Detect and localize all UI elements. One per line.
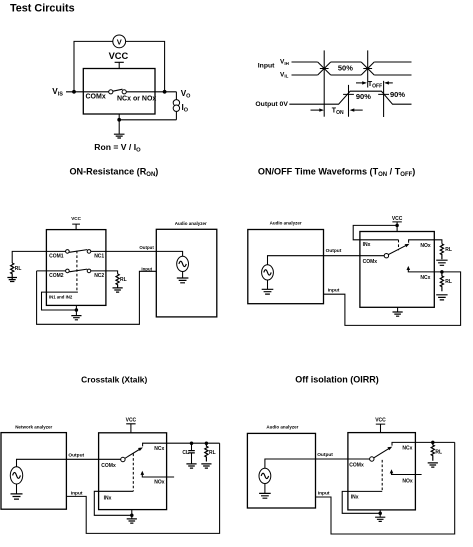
power VCC symbol xyxy=(126,424,135,433)
svg-text:VCC: VCC xyxy=(109,51,129,61)
wire box to ground xyxy=(379,510,381,517)
node ground junction xyxy=(130,514,134,518)
resistor RL right xyxy=(116,274,119,288)
svg-text:RL: RL xyxy=(445,247,452,253)
ground xyxy=(114,134,125,138)
ground source xyxy=(177,278,189,283)
svg-text:Test Circuits: Test Circuits xyxy=(10,2,75,14)
switch COMx-NCx xyxy=(109,90,113,94)
node NCx junction xyxy=(440,270,444,274)
svg-text:VCC: VCC xyxy=(71,216,81,221)
svg-text:Input: Input xyxy=(141,266,152,271)
svg-text:RL: RL xyxy=(15,266,22,272)
wire COM2 xyxy=(37,270,66,272)
wire NOx stub with arrow xyxy=(142,472,174,477)
svg-text:INx: INx xyxy=(351,495,359,501)
TOFF arrows xyxy=(356,82,364,84)
wire VCC to INx xyxy=(353,225,398,239)
svg-text:NCx: NCx xyxy=(154,446,164,452)
tick vertical line 1 xyxy=(323,50,325,116)
node bottom junction xyxy=(117,118,121,122)
svg-text:VIS: VIS xyxy=(52,87,63,98)
switch COMx xyxy=(121,457,125,461)
power VCC symbol xyxy=(72,224,80,230)
svg-text:Output 0V: Output 0V xyxy=(255,101,288,108)
wire top loop to voltmeter xyxy=(74,41,165,91)
ground RL NCx xyxy=(436,295,447,300)
ground IC box xyxy=(375,517,385,521)
resistor RL left xyxy=(11,263,14,279)
capacitor CL xyxy=(191,443,193,463)
wire source to ground xyxy=(16,484,18,494)
resistor RL NOx xyxy=(440,244,443,259)
svg-text:NOx: NOx xyxy=(420,243,431,249)
wire Input loop xyxy=(66,443,219,533)
svg-text:Output: Output xyxy=(139,245,154,250)
wire box to ground xyxy=(131,510,133,519)
ground NC2 RL xyxy=(113,288,123,292)
wire INx xyxy=(94,491,133,515)
svg-text:IN1 and IN2: IN1 and IN2 xyxy=(49,294,73,299)
switch COM1-NC1 xyxy=(66,250,70,254)
ground source xyxy=(259,493,271,498)
svg-text:COMx: COMx xyxy=(349,462,364,468)
node RL junction xyxy=(205,441,209,445)
node CL junction xyxy=(190,441,194,445)
input waveform VIH line xyxy=(292,61,412,63)
output waveform xyxy=(289,91,411,104)
svg-text:90%: 90% xyxy=(390,90,405,99)
svg-text:90%: 90% xyxy=(356,92,371,101)
ground CL xyxy=(186,464,196,468)
wire Output to COMx xyxy=(17,459,121,467)
switch COM2-NC2 xyxy=(66,269,70,273)
svg-text:NC1: NC1 xyxy=(94,253,104,259)
svg-text:V: V xyxy=(117,37,122,46)
dashed control link xyxy=(398,240,400,251)
svg-text:Input: Input xyxy=(258,63,275,70)
wire INx xyxy=(342,491,382,513)
node VIS junction xyxy=(72,90,76,94)
analyzer box xyxy=(1,433,66,510)
node RL junction xyxy=(431,441,435,445)
analyzer box xyxy=(156,229,217,317)
svg-text:Output: Output xyxy=(317,452,333,458)
svg-text:ON/OFF Time Waveforms (TON / T: ON/OFF Time Waveforms (TON / TOFF) xyxy=(258,167,415,179)
wire bottom return xyxy=(119,114,176,134)
voltmeter U1 xyxy=(113,35,126,48)
IC box U6 xyxy=(348,433,416,510)
wire source to ground xyxy=(267,280,269,289)
svg-text:NOx: NOx xyxy=(402,478,413,484)
wire Output to COMx xyxy=(268,256,385,265)
source V4 sine xyxy=(259,468,271,483)
svg-text:RL: RL xyxy=(445,279,452,285)
wire box to ground xyxy=(75,305,77,315)
svg-text:ON-Resistance (RON): ON-Resistance (RON) xyxy=(69,167,158,179)
svg-text:Input: Input xyxy=(318,491,330,497)
svg-text:COM2: COM2 xyxy=(49,273,64,279)
ground IC box xyxy=(71,316,81,320)
svg-text:RL: RL xyxy=(435,449,442,455)
source V2 sine xyxy=(262,265,274,280)
svg-text:NC2: NC2 xyxy=(94,273,104,279)
wire NCx xyxy=(143,443,220,446)
svg-text:Audio analyzer: Audio analyzer xyxy=(175,221,207,226)
resistor RL xyxy=(431,442,434,460)
svg-text:VCC: VCC xyxy=(375,418,386,424)
current source IO xyxy=(173,100,179,106)
source V3 sine xyxy=(10,467,22,484)
power VCC symbol xyxy=(392,222,401,232)
svg-text:COMx: COMx xyxy=(101,463,116,469)
svg-text:VIH: VIH xyxy=(280,59,289,66)
ground source xyxy=(11,494,23,499)
ground IC box xyxy=(393,312,403,316)
wire source to ground xyxy=(182,272,184,278)
wire NCx xyxy=(392,442,455,445)
svg-text:NOx: NOx xyxy=(154,480,165,486)
svg-text:Off isolation (OIRR): Off isolation (OIRR) xyxy=(295,375,379,385)
source V1 sine xyxy=(177,256,189,271)
svg-text:NCx or NOx: NCx or NOx xyxy=(117,95,156,102)
ground IC box xyxy=(127,519,137,523)
analyzer box xyxy=(247,433,315,508)
svg-text:50%: 50% xyxy=(338,64,353,73)
svg-text:TON: TON xyxy=(332,108,344,116)
IC box U2 xyxy=(83,69,155,115)
svg-text:Audio analyzer: Audio analyzer xyxy=(266,424,298,429)
node ground junction xyxy=(75,308,79,312)
svg-text:COM1: COM1 xyxy=(49,253,64,259)
svg-text:Input: Input xyxy=(328,288,340,294)
analyzer box xyxy=(248,230,324,304)
svg-text:VIL: VIL xyxy=(280,71,289,78)
ground RL NOx xyxy=(436,260,447,265)
svg-text:TOFF: TOFF xyxy=(368,81,382,89)
svg-text:Input: Input xyxy=(71,491,83,497)
svg-text:CL: CL xyxy=(182,450,189,456)
svg-text:Output: Output xyxy=(68,452,84,458)
dashed control link xyxy=(381,460,383,492)
wire NCx to Input loop xyxy=(324,272,461,326)
wire IN1/IN2 xyxy=(42,292,78,310)
dashed link switches xyxy=(76,251,78,292)
ground source xyxy=(262,289,274,294)
svg-text:COMx: COMx xyxy=(363,259,378,265)
svg-text:Crosstalk (Xtalk): Crosstalk (Xtalk) xyxy=(81,375,147,385)
IC box U4 xyxy=(360,232,434,308)
TON arrows xyxy=(311,109,321,111)
crossover X2 xyxy=(361,62,374,75)
svg-text:Ron = V / IO: Ron = V / IO xyxy=(94,142,141,154)
tick vertical line 3 xyxy=(343,85,354,117)
svg-text:INx: INx xyxy=(104,495,112,501)
power VCC symbol xyxy=(115,62,124,68)
svg-text:NCx: NCx xyxy=(402,446,412,452)
svg-text:Output: Output xyxy=(326,248,342,254)
svg-text:NCx: NCx xyxy=(420,275,430,281)
svg-text:RL: RL xyxy=(209,450,216,456)
node VCC junction xyxy=(395,224,399,228)
wire right branch xyxy=(175,92,177,120)
wire Output to COMx xyxy=(265,459,370,468)
resistor RL xyxy=(205,443,208,461)
wire VO output xyxy=(126,91,176,93)
resistor RL NCx xyxy=(440,272,443,291)
wire NCx stub with arrow xyxy=(408,268,442,272)
wire COM1 with left RL branch xyxy=(12,251,65,263)
svg-text:INx: INx xyxy=(363,242,371,248)
svg-text:RL: RL xyxy=(120,277,127,283)
wire NC2 to RL xyxy=(91,271,118,274)
svg-text:COMx: COMx xyxy=(86,93,106,100)
wire Input loop xyxy=(316,442,455,534)
wire NC1 to analyzer output xyxy=(91,251,183,256)
crossover X1 xyxy=(318,62,331,75)
svg-text:IO: IO xyxy=(182,103,189,114)
ground left RL xyxy=(7,278,17,282)
IC box U5 xyxy=(99,433,167,510)
svg-text:Network analyzer: Network analyzer xyxy=(15,424,52,429)
wire NOx xyxy=(409,240,442,244)
wire VIS input xyxy=(66,91,109,93)
wire box to ground xyxy=(397,307,399,311)
power VCC symbol xyxy=(376,424,385,433)
node ground junction xyxy=(378,512,382,516)
dashed control link xyxy=(132,454,134,492)
ground RL xyxy=(201,464,211,468)
ground RL xyxy=(428,463,438,467)
wire NOx stub with arrow xyxy=(392,471,422,475)
input waveform VIL line xyxy=(292,74,412,76)
svg-text:VCC: VCC xyxy=(392,216,403,222)
tick vertical line 4 xyxy=(378,81,389,117)
node VO junction xyxy=(163,90,167,94)
wire source to ground xyxy=(264,484,266,494)
switch COMx xyxy=(384,254,388,258)
wire input loop bottom xyxy=(37,271,157,324)
switch COMx xyxy=(370,457,374,461)
IC box U3 xyxy=(46,230,106,306)
svg-text:VO: VO xyxy=(181,89,191,100)
svg-text:VCC: VCC xyxy=(126,417,137,423)
tick vertical line 2 xyxy=(367,50,369,87)
svg-text:Audio analyzer: Audio analyzer xyxy=(270,221,302,226)
